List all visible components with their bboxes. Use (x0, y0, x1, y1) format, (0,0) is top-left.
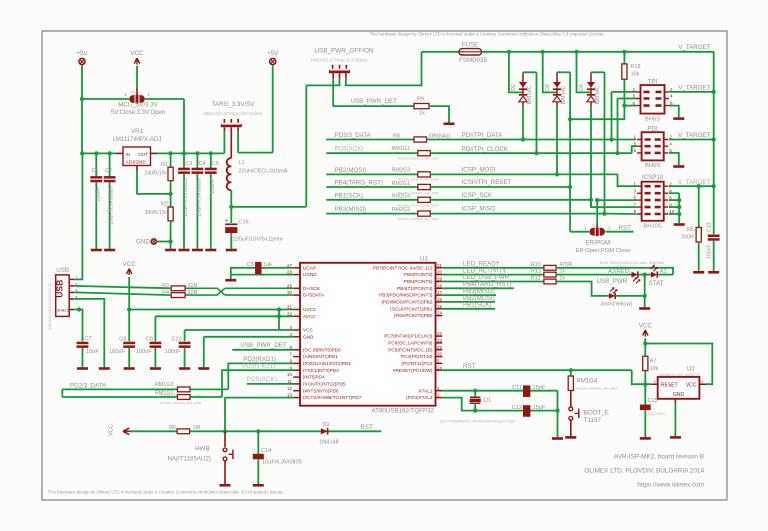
svg-text:VCC: VCC (109, 424, 115, 436)
wire PB2 MOSI stub (326, 173, 418, 175)
wire R5 top (698, 186, 700, 227)
junction C2 (108, 151, 112, 155)
ground C3 (179, 249, 190, 252)
wire V_TARGET bus down (713, 52, 715, 234)
svg-text:C12: C12 (512, 405, 522, 411)
USB pin stubs (69, 278, 74, 280)
wire ICSP10 even pin (669, 199, 679, 201)
ground C5 (205, 249, 216, 252)
svg-text:390R/1%: 390R/1% (144, 210, 166, 216)
wire jumper pin1 right (145, 98, 184, 100)
svg-text:15pF: 15pF (533, 405, 546, 411)
junction AVCC (277, 314, 281, 318)
wire PB4 TARG_RST stub (442, 287, 513, 289)
wire A1 right (658, 274, 673, 276)
svg-text:(RXD1/AIN1/INT2)PD2: (RXD1/AIN1/INT2)PD2 (303, 361, 351, 366)
svg-text:22: 22 (437, 331, 443, 336)
ground PDI (673, 165, 684, 168)
svg-text:PB4(T1/PCINT4): PB4(T1/PCINT4) (397, 286, 433, 291)
svg-text:18: 18 (437, 283, 443, 288)
wire GND sym to R2 (157, 241, 171, 243)
wire D4 jog (591, 71, 605, 73)
svg-text:21: 21 (437, 263, 443, 268)
junction 5V rail (80, 151, 84, 155)
wire XTAL2 (442, 398, 557, 411)
svg-text:240R/1%: 240R/1% (144, 171, 166, 177)
junction even pins 10 (677, 212, 681, 216)
wire U1 GND down (203, 337, 205, 367)
wire AVCC row (155, 315, 293, 317)
resistor RM2G3 (418, 172, 431, 177)
inductor L1 (227, 158, 232, 190)
svg-text:20: 20 (437, 270, 443, 275)
svg-text:RA1206_(4X0603)_4R6_100R: RA1206_(4X0603)_4R6_100R (577, 386, 619, 390)
svg-text:3mm(Yellow): 3mm(Yellow) (600, 302, 632, 308)
svg-text:VCC: VCC (686, 383, 697, 389)
wire UGND down (230, 275, 232, 279)
svg-text:LED_USB_PWR: LED_USB_PWR (463, 274, 510, 281)
ground UGND (225, 279, 236, 282)
wire PD2/3_DATA stub (326, 139, 414, 141)
svg-text:5V:Close;3.3V:Open: 5V:Close;3.3V:Open (111, 110, 165, 116)
wire R1 top (170, 153, 172, 167)
svg-text:PC7(INT4/ICP1/CLKO): PC7(INT4/ICP1/CLKO) (384, 334, 433, 339)
wire ICSP10 even pin (669, 192, 679, 194)
junction D2 CLOCK (534, 151, 538, 155)
svg-text:D4: D4 (579, 84, 585, 91)
resistor R5 (696, 228, 701, 243)
svg-text:NA(100nF): NA(100nF) (648, 412, 666, 416)
svg-text:PB1(SCK): PB1(SCK) (463, 302, 492, 309)
wire RST to U2 (632, 370, 651, 384)
svg-text:USB-B-H(USB-B-G/SMD/4X/L/S): USB-B-H(USB-B-G/SMD/4X/L/S) (48, 283, 52, 330)
wire D3 bot lead (556, 102, 558, 106)
wire C10 bottom (184, 348, 186, 367)
resistor RM2G1 (418, 184, 431, 189)
junction C4 (195, 151, 199, 155)
capacitor C1 (90, 176, 102, 179)
wire D2 to DATA (522, 106, 524, 140)
svg-text:220uF/10V/5x11mm: 220uF/10V/5x11mm (233, 237, 283, 243)
svg-text:U1: U1 (420, 255, 428, 262)
svg-text:1M: 1M (193, 425, 201, 431)
svg-text:1 2 3: 1 2 3 (225, 129, 232, 133)
svg-text:OUT: OUT (138, 152, 148, 157)
svg-text:PB3(MISO): PB3(MISO) (335, 206, 367, 213)
wire USB D- to R3 (74, 286, 171, 288)
svg-text:100nF: 100nF (109, 349, 125, 355)
junction D4 (574, 50, 578, 54)
junction LED common (643, 273, 647, 277)
LED A1 status (651, 272, 657, 278)
svg-text:C6: C6 (247, 262, 254, 268)
junction shield (77, 307, 81, 311)
svg-text:D+/SCK: D+/SCK (303, 286, 321, 291)
wire down to VCC rail (183, 99, 185, 153)
wire C15 bottom (644, 410, 646, 437)
svg-text:PB5(PCINT5): PB5(PCINT5) (404, 279, 433, 284)
wire PB4 stub (326, 186, 418, 188)
svg-text:1uF: 1uF (263, 262, 273, 268)
wire D3 common (543, 52, 557, 93)
capacitor C5 (205, 168, 217, 171)
svg-text:RA1206_(4X0603)_4R6_100R: RA1206_(4X0603)_4R6_100R (160, 401, 202, 405)
svg-text:RM2G1: RM2G1 (392, 181, 411, 187)
wire ICSP_MISO (430, 213, 604, 215)
svg-text:RA1206_(4X0603)_4R6_100R: RA1206_(4X0603)_4R6_100R (398, 217, 440, 221)
wire C2 top (109, 153, 111, 176)
resistor R6 (177, 429, 190, 434)
LED A2 red (632, 272, 638, 278)
IC U1 AT90USB162 (300, 263, 436, 406)
wire TARG pin3 down (237, 131, 239, 153)
wire XTAL1 (442, 390, 557, 392)
capacitor C9 (150, 342, 162, 345)
wire PB1 SCK stub (326, 199, 418, 201)
wire ICSP_MOSI (430, 173, 617, 175)
svg-text:#RESET(PC1/DW): #RESET(PC1/DW) (393, 368, 433, 373)
wire C5 top (210, 153, 212, 168)
ground R9 (444, 123, 455, 126)
wire V_TARGET rail (482, 51, 714, 53)
wire PD2/3_DATA left (62, 388, 177, 390)
ground C4 (192, 249, 203, 252)
resistor R4 (171, 293, 185, 298)
capacitor C13 (708, 235, 720, 238)
svg-text:C5: C5 (212, 161, 219, 167)
VR1 IN pin (116, 152, 123, 154)
svg-text:VR1: VR1 (131, 128, 144, 135)
VR1 ADJ stub (136, 166, 138, 172)
jumper USB_PWR_OFF/ON (329, 65, 350, 72)
wire jumper pin3 to fuse (346, 52, 422, 86)
svg-text:C9: C9 (146, 337, 153, 343)
wire C7 bottom (82, 348, 84, 367)
capacitor C12 (523, 405, 530, 417)
svg-text:FUSE: FUSE (462, 42, 479, 49)
connector ICSP10 (634, 181, 675, 220)
wire C4 top (196, 153, 198, 168)
wire D3 mid lead (556, 88, 558, 95)
wire D2 jog (523, 71, 537, 73)
svg-text:3: 3 (634, 188, 637, 193)
capacitor C14 (253, 454, 264, 460)
svg-text:XTAL1: XTAL1 (419, 388, 433, 393)
svg-text:10uF/6.3V/0805: 10uF/6.3V/0805 (197, 179, 203, 217)
wire PB1 SCK stub (442, 308, 495, 310)
capacitor C7 (77, 342, 89, 345)
svg-text:https://www.olimex.com: https://www.olimex.com (637, 482, 704, 489)
ER jumper pin2 stub (596, 224, 598, 228)
wire U2 GND down (674, 403, 676, 436)
ground ICSP10 (674, 223, 685, 226)
svg-text:24: 24 (437, 365, 443, 370)
svg-text:R2: R2 (161, 202, 168, 208)
wire D2 bot lead (522, 102, 524, 106)
svg-text:R6: R6 (169, 425, 176, 431)
ground LEDs (639, 307, 650, 310)
wire to LED yellow (556, 282, 609, 296)
wire PD7 HWB (225, 398, 293, 432)
resistor R8 (414, 137, 427, 142)
wire ICSP/TPI_RESET (430, 186, 570, 188)
svg-text:VCC: VCC (123, 261, 137, 268)
junction V_TARGET PDI (712, 137, 716, 141)
ground U2 (670, 436, 681, 439)
wire VCC tie column (278, 310, 280, 331)
wire USB VBUS up (74, 153, 82, 279)
svg-text:ICSP10: ICSP10 (642, 174, 664, 181)
capacitor C3 (178, 168, 190, 171)
resistor R9 (414, 104, 429, 109)
svg-text:C15: C15 (648, 398, 658, 404)
svg-text:(XCK/PCINT12)PD5: (XCK/PCINT12)PD5 (303, 382, 346, 387)
wire C13 bottom (713, 241, 715, 271)
svg-text:BH6S: BH6S (645, 163, 660, 169)
svg-text:ER/PGM: ER/PGM (586, 239, 610, 246)
wire C1 top (95, 153, 97, 176)
junction V_TARGET ICSP (712, 184, 716, 188)
svg-text:UVCC: UVCC (303, 307, 317, 312)
svg-text:(PDI/MOSI/PCINT2)PB2: (PDI/MOSI/PCINT2)PB2 (381, 300, 432, 305)
wire ADJ to divider (137, 171, 171, 194)
svg-text:USB_PWR_DET: USB_PWR_DET (240, 342, 287, 349)
wire to ER jumper pin2 (596, 200, 598, 223)
junction C5 (209, 151, 213, 155)
wire LED common to ground (644, 275, 646, 308)
svg-text:R13: R13 (631, 64, 641, 70)
svg-text:C2: C2 (105, 168, 112, 174)
svg-text:PD2(RXD1): PD2(RXD1) (243, 356, 276, 363)
svg-text:USB_PWR_DET: USB_PWR_DET (351, 98, 398, 105)
wire A2 to A1 (638, 274, 651, 276)
wire VCC to R7 (644, 338, 646, 356)
svg-text:Q1: Q1 (484, 398, 491, 404)
wire RM1G2 left (62, 396, 177, 398)
svg-text:ICSP_SCK: ICSP_SCK (462, 192, 493, 199)
wire D4 to SCK (590, 106, 592, 207)
wire PD2 RXD1 (228, 363, 293, 389)
junction Q1 bottom (473, 409, 477, 413)
svg-text:(OC.0B/INT0)PD0: (OC.0B/INT0)PD0 (303, 347, 341, 352)
capacitor C2 (104, 176, 116, 179)
resistor RM1G1 (418, 151, 431, 156)
svg-text:3mmL 7593B/2W/3mCD/2i-Leads_Re: 3mmL 7593B/2W/3mCD/2i-Leads_Red/Green (599, 261, 664, 265)
wire PB3 MISO stub (326, 213, 418, 215)
wire RM1G4 to button (570, 390, 572, 407)
svg-text:4: 4 (670, 94, 673, 99)
resistor R12 (544, 279, 556, 284)
svg-text:R9: R9 (417, 97, 424, 103)
junction C14 (256, 429, 260, 433)
TARG pin3 stub (237, 127, 239, 131)
LED A1 arrows (651, 265, 658, 271)
svg-text:STAT: STAT (649, 280, 664, 287)
svg-text:ADJ/GND: ADJ/GND (126, 160, 147, 165)
USB_PWR jumper pin stub (332, 73, 334, 78)
svg-text:A2(RED): A2(RED) (608, 269, 631, 275)
svg-text:V_TARGET: V_TARGET (678, 179, 710, 186)
TARG pin1 stub (223, 127, 225, 131)
wire L1 to C16 (230, 190, 232, 223)
junction VCC U2 (643, 341, 647, 345)
wire D4 common (577, 52, 592, 93)
resistor RM1G2 (178, 395, 191, 400)
svg-text:C16: C16 (238, 220, 248, 226)
svg-text:RM2G2: RM2G2 (392, 207, 411, 213)
svg-text:BOOT_E: BOOT_E (584, 410, 609, 417)
svg-text:|INT5|PD4: |INT5|PD4 (303, 375, 325, 380)
ground C16 (226, 249, 237, 252)
wire PDI pin6 to ground (669, 153, 679, 165)
svg-text:V_TARGET: V_TARGET (678, 84, 710, 91)
svg-text:RM1G1: RM1G1 (392, 146, 411, 152)
svg-text:C7: C7 (84, 336, 91, 342)
svg-text:12: 12 (287, 386, 293, 391)
svg-text:USB_PWR_OFF/ON: USB_PWR_OFF/ON (314, 48, 374, 55)
wire D+ D- crossover (185, 288, 293, 295)
svg-text:+5V: +5V (76, 50, 88, 57)
svg-text:PB6(PCINT6): PB6(PCINT6) (404, 272, 433, 277)
svg-text:+5V: +5V (267, 50, 279, 57)
wire VCC down C8 (128, 277, 130, 341)
svg-text:PD5(XCK): PD5(XCK) (335, 146, 364, 153)
jumper ER/PGM (589, 227, 605, 236)
svg-text:C10: C10 (171, 337, 181, 343)
wire to C14 (257, 431, 259, 454)
IC U2 MCP130T (658, 377, 700, 399)
diode D3 upper (553, 82, 561, 88)
svg-text:PC5(PCINT9/OC.1B): PC5(PCINT9/OC.1B) (388, 347, 433, 352)
svg-text:PC6(OC.1A/PCINT8): PC6(OC.1A/PCINT8) (388, 341, 433, 346)
svg-text:22uH/CECL/310mA: 22uH/CECL/310mA (239, 168, 288, 174)
svg-text:15: 15 (437, 304, 443, 309)
junction D2 DATA (521, 137, 525, 141)
jumper TARG_3.3V/5V (221, 119, 242, 126)
resistor RM1G3 (178, 387, 191, 392)
svg-text:AVCC: AVCC (303, 314, 316, 319)
USB_PWR jumper pin stub (339, 73, 341, 78)
wire target power to jumper (231, 206, 306, 208)
svg-text:BH10S: BH10S (643, 224, 662, 230)
junction R5 (697, 184, 701, 188)
wire C16 bottom (230, 233, 232, 249)
svg-text:4: 4 (669, 141, 672, 146)
U1 left pins (293, 267, 300, 269)
svg-text:23: 23 (437, 338, 443, 343)
ground HWB (220, 484, 231, 487)
wire ICSP10 pin1 jog (618, 174, 638, 186)
diode D2 upper (519, 82, 527, 88)
svg-text:USB: USB (55, 280, 65, 298)
svg-text:NA(IT1185AU2): NA(IT1185AU2) (167, 455, 211, 462)
svg-text:PD3(TXD1): PD3(TXD1) (242, 364, 276, 370)
svg-text:AVR-ISP-MK2, board revision B: AVR-ISP-MK2, board revision B (614, 454, 704, 461)
svg-text:1k: 1k (559, 275, 565, 281)
svg-text:C4: C4 (199, 161, 206, 167)
svg-text:This hardware design by Olimex: This hardware design by Olimex LTD is li… (48, 490, 284, 495)
svg-text:BAT54C: BAT54C (561, 85, 567, 104)
svg-text:PD2/3_DATA: PD2/3_DATA (335, 132, 372, 139)
wire PDI pin3 jog (632, 146, 637, 153)
svg-text:Q16.000MHz/HC-49SM/SMD/20ppm:2: Q16.000MHz/HC-49SM/SMD/20ppm:20pF (440, 418, 516, 423)
wire jumper pin1 to R9 (333, 79, 414, 107)
USB_PWR jumper pin stub (345, 73, 347, 78)
ground C2 (104, 249, 115, 252)
wire TPI pin2 V_TARGET (669, 91, 714, 93)
wire ER pin3 (570, 231, 589, 233)
svg-text:GND: GND (136, 239, 150, 246)
wire R2 top (170, 194, 172, 207)
wire TARG to +5V (238, 152, 273, 154)
diode D4 upper (587, 82, 595, 88)
wire D4 mid lead (590, 88, 592, 95)
svg-text:HN1x3(3.3V:Open;5V:Close): HN1x3(3.3V:Open;5V:Close) (204, 111, 263, 116)
svg-text:R10: R10 (531, 262, 541, 268)
wire D3 top lead (556, 72, 558, 82)
svg-text:(PCINT11)PC2: (PCINT11)PC2 (401, 361, 433, 366)
svg-text:100nF: 100nF (210, 178, 216, 194)
junction C3 (182, 151, 186, 155)
svg-text:BH6S: BH6S (645, 116, 660, 122)
svg-text:RM1G3: RM1G3 (155, 382, 174, 388)
wire D3 to MOSI (556, 106, 558, 174)
svg-text:17: 17 (437, 290, 443, 295)
wire USB GND (74, 299, 104, 367)
ground C13 (708, 271, 719, 274)
pushbutton HWB (223, 448, 233, 461)
wire C3 bottom (183, 174, 185, 249)
svg-text:RST: RST (360, 424, 373, 431)
wire D4 bot lead (590, 102, 592, 106)
wire +5V down (81, 65, 83, 99)
svg-text:SHIELD: SHIELD (57, 309, 70, 313)
capacitor C11 (523, 385, 530, 397)
svg-text:10uF/6.3V/0805: 10uF/6.3V/0805 (262, 459, 302, 465)
LED yellow arrows (610, 288, 617, 294)
wire C1 bottom (95, 182, 97, 249)
svg-text:19: 19 (437, 277, 443, 282)
svg-text:HWB: HWB (195, 445, 209, 452)
wire D2 top lead (522, 72, 524, 82)
connector USB (56, 275, 69, 317)
wire PDI/TPI_DATA (427, 139, 637, 141)
svg-text:1k: 1k (419, 111, 425, 117)
wire UVCC row (129, 309, 293, 311)
svg-text:BAT54C: BAT54C (595, 85, 601, 104)
wire R5 bottom (698, 242, 700, 271)
svg-text:PC4(PCINT10): PC4(PCINT10) (401, 354, 433, 359)
svg-text:FSMD035: FSMD035 (459, 57, 487, 64)
wire PDI/TPI_CLOCK (430, 152, 631, 154)
svg-text:RM2G3: RM2G3 (392, 168, 411, 174)
junction Q1 top (473, 389, 477, 393)
wire to LED A2 (556, 274, 631, 276)
junction R1 (169, 151, 173, 155)
wire PD5 XCK row (247, 383, 293, 385)
junction D2 (507, 50, 511, 54)
wire ICSP_SCK (430, 199, 591, 201)
wire PD5 XCK stub (326, 152, 418, 154)
wire VCC 3.3V rail (157, 152, 224, 154)
svg-text:LM1117IMPX-ADJ: LM1117IMPX-ADJ (113, 137, 162, 143)
wire PD3 TXD1 (222, 370, 293, 397)
VR1 OUT pin (151, 152, 158, 154)
wire TPI pin3 (618, 98, 637, 100)
svg-text:16: 16 (437, 297, 443, 302)
wire data join (61, 389, 63, 397)
svg-text:VCC: VCC (130, 50, 144, 57)
